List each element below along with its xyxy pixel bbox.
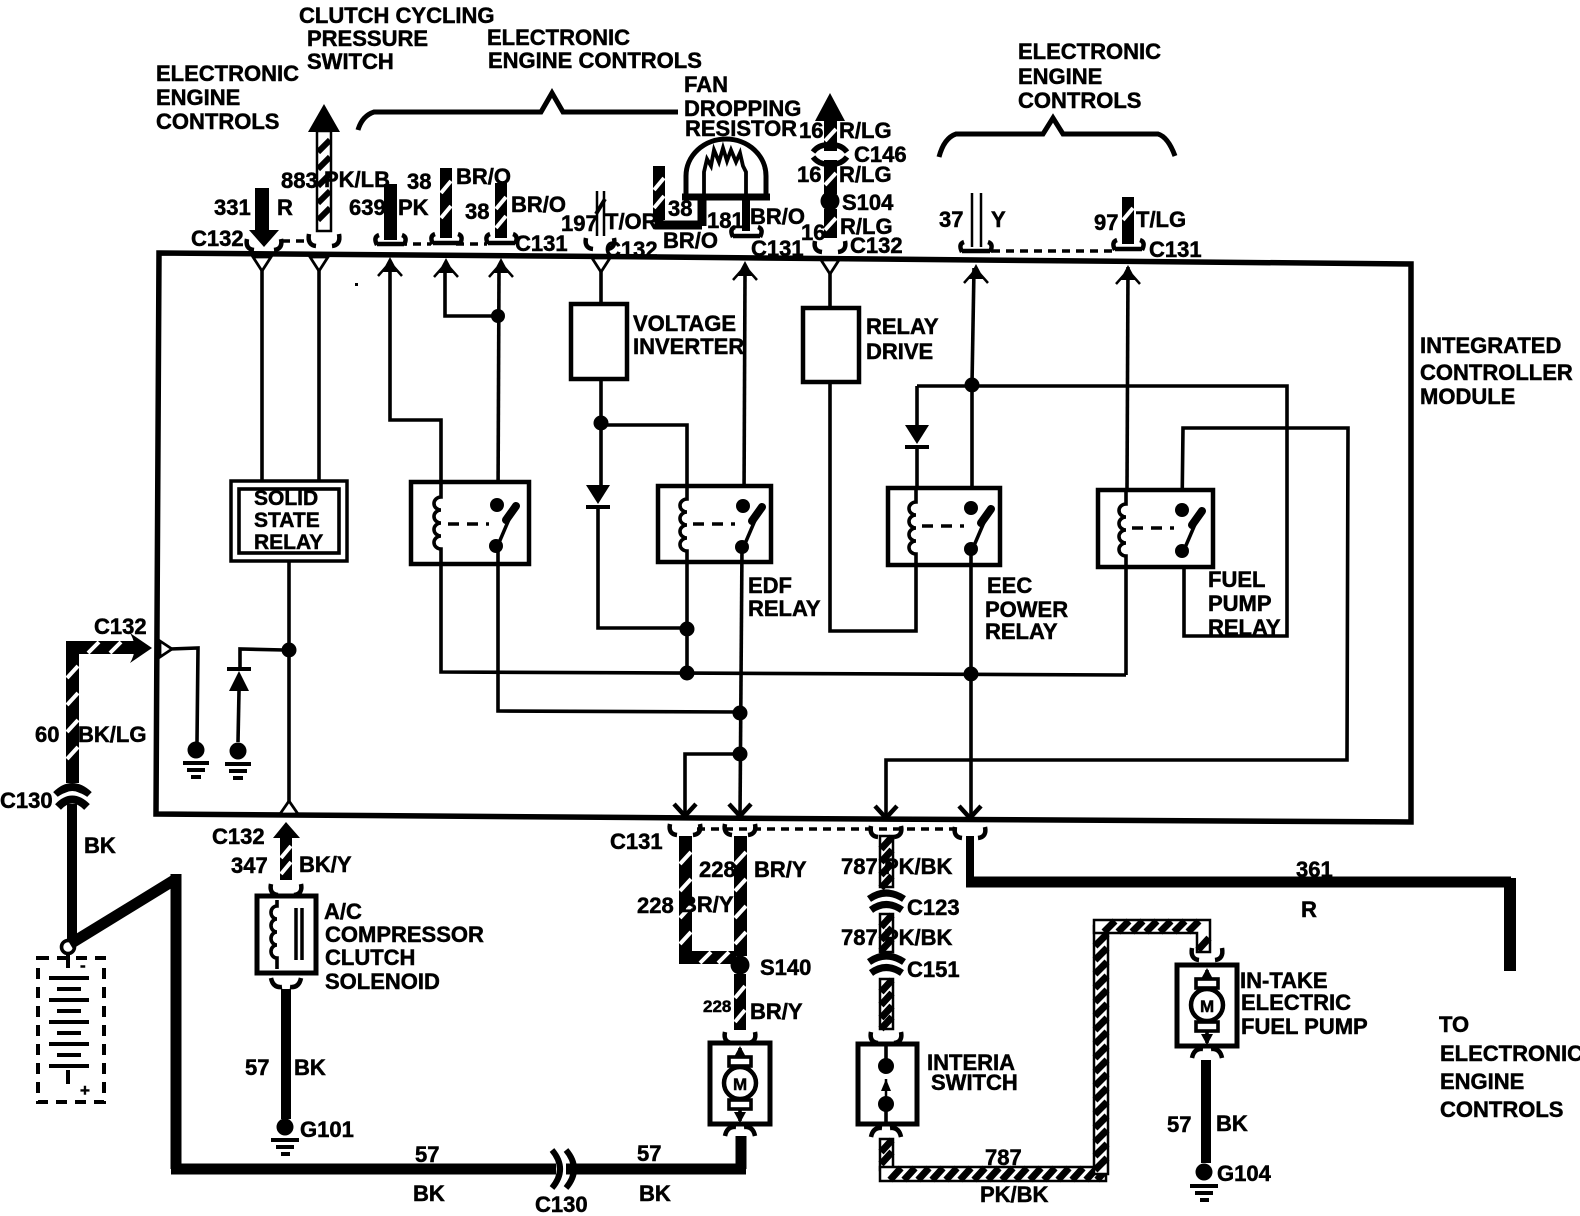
wire 16 to relay drive	[828, 273, 832, 309]
diode D2 (inverter branch)	[586, 429, 610, 507]
svg-text:C131: C131	[515, 231, 568, 256]
fan dropping resistor	[682, 139, 770, 197]
wire node to diode D1	[240, 649, 284, 668]
svg-text:BR/Y: BR/Y	[681, 892, 734, 917]
svg-text:16: 16	[799, 118, 823, 143]
wire node to EDF coil	[601, 425, 687, 487]
svg-text:G101: G101	[300, 1117, 354, 1142]
wire 197 to voltage inverter	[599, 270, 603, 305]
svg-text:RELAY: RELAY	[985, 619, 1058, 644]
wire 38 BR/O (second) into C131	[465, 183, 568, 256]
svg-text:C151: C151	[907, 957, 960, 982]
wire 639 PK into C131	[349, 184, 429, 245]
svg-text:T/OR: T/OR	[605, 209, 658, 234]
wire 16 R/LG with arrow up	[799, 93, 892, 151]
label electronic engine controls (left)	[156, 61, 299, 134]
connector (fuel pump top)	[1192, 948, 1223, 960]
wire 97 to fuel pump coil	[1127, 267, 1128, 492]
entry arrow C131 (37)	[964, 264, 988, 283]
svg-text:C132: C132	[212, 824, 265, 849]
node (38 wires join)	[491, 309, 505, 323]
svg-text:S140: S140	[760, 955, 811, 980]
wire 228 BR/Y (left leg) to S140	[637, 836, 736, 964]
wire 787 PK/BK inertia to fuel pump	[871, 920, 1210, 1207]
svg-text:M: M	[1200, 997, 1214, 1016]
svg-text:BR/Y: BR/Y	[754, 857, 807, 882]
svg-text:ELECTRONIC: ELECTRONIC	[1018, 39, 1161, 64]
svg-text:787: 787	[985, 1145, 1022, 1170]
brace (right electronic engine controls)	[939, 118, 1175, 157]
svg-text:CONTROLS: CONTROLS	[156, 109, 279, 134]
wire net to fuel pump switch bottom	[917, 386, 1287, 636]
svg-text:BR/O: BR/O	[511, 192, 566, 217]
splice S140	[731, 955, 812, 980]
svg-text:361: 361	[1296, 857, 1333, 882]
svg-text:883: 883	[281, 168, 318, 193]
wire 97 T/LG into C131	[1094, 197, 1202, 262]
dashed connector line C132 top	[282, 239, 311, 243]
label clutch cycling pressure switch	[299, 3, 495, 74]
svg-text:C123: C123	[907, 895, 960, 920]
svg-text:16: 16	[801, 220, 825, 245]
svg-text:BK: BK	[639, 1181, 671, 1206]
exit arrow C131 (361)	[959, 806, 981, 818]
connector C123	[868, 893, 960, 920]
svg-text:R/LG: R/LG	[839, 162, 892, 187]
diode D1	[227, 669, 251, 742]
speck artifact	[355, 283, 358, 286]
svg-text:C132: C132	[850, 233, 903, 258]
svg-text:639: 639	[349, 195, 386, 220]
node (EDF coil on bus)	[680, 666, 695, 681]
svg-text:FUEL: FUEL	[1208, 567, 1265, 592]
node (EDF coil bottom / diode)	[680, 622, 695, 637]
svg-text:BK/LG: BK/LG	[78, 722, 146, 747]
svg-text:RELAY: RELAY	[866, 314, 939, 339]
label fan dropping resistor	[684, 72, 801, 141]
exit arrow C131 (787)	[875, 806, 897, 818]
wire 57 BK to G104	[1167, 1049, 1248, 1163]
label to electronic engine controls	[1439, 1012, 1580, 1122]
wire BK battery to 57 bus	[70, 874, 176, 1169]
wire 37 to EEC switch node	[972, 268, 974, 384]
node (EEC switch top net)	[965, 378, 980, 393]
svg-text:EEC: EEC	[987, 573, 1032, 598]
svg-text:60: 60	[35, 722, 59, 747]
wire 639 to relay1 coil	[390, 270, 441, 484]
wire voltage inverter output	[599, 379, 603, 420]
svg-text:RELAY: RELAY	[254, 531, 323, 554]
svg-text:STATE: STATE	[254, 509, 320, 532]
svg-text:ELECTRIC: ELECTRIC	[1241, 990, 1351, 1015]
svg-text:ENGINE: ENGINE	[156, 85, 240, 110]
svg-text:T/LG: T/LG	[1136, 207, 1186, 232]
in-take electric fuel pump M2	[1177, 965, 1368, 1046]
svg-text:BK/Y: BK/Y	[299, 852, 352, 877]
battery terminal	[62, 941, 75, 954]
svg-text:C132: C132	[605, 237, 658, 262]
svg-text:BK: BK	[413, 1181, 445, 1206]
svg-text:RESISTOR: RESISTOR	[685, 116, 797, 141]
fan motor M1	[710, 1043, 770, 1136]
diode D3 (EEC coil)	[905, 386, 929, 489]
label electronic engine controls (right)	[1018, 39, 1161, 113]
node (inverter output)	[594, 416, 609, 431]
svg-text:228: 228	[699, 857, 736, 882]
integrated controller module box	[156, 253, 1411, 822]
connector C130 (inline)	[535, 1150, 588, 1216]
wire 38a to node	[445, 271, 497, 316]
exit chevron (left edge C132)	[160, 641, 172, 657]
svg-text:787: 787	[841, 925, 878, 950]
wire fuel pump coil bottom	[1124, 567, 1128, 675]
svg-text:INVERTER: INVERTER	[633, 334, 744, 359]
ground G101	[271, 1117, 354, 1154]
battery B1	[38, 954, 104, 1102]
svg-text:CONTROLLER: CONTROLLER	[1420, 360, 1573, 385]
wire 38 BR/O (first) into C131	[407, 164, 511, 244]
wire EDF switch bottom to C131 exit	[740, 547, 742, 817]
wire 883 to solid state relay	[317, 270, 321, 482]
entry arrow C131 (181)	[733, 261, 757, 280]
node (228 tie)	[733, 747, 748, 762]
wire fan motor to 57 BK bus	[736, 1136, 747, 1169]
wire 197 T/OR into C132	[561, 191, 658, 262]
connector C151	[868, 956, 960, 982]
node (EDF switch / relay1)	[733, 706, 748, 721]
wire 181 BR/O into C131	[707, 199, 805, 261]
svg-text:BR/O: BR/O	[750, 204, 805, 229]
svg-text:INTEGRATED: INTEGRATED	[1420, 333, 1561, 358]
svg-text:RELAY: RELAY	[1208, 615, 1281, 640]
svg-text:CONTROLS: CONTROLS	[1018, 88, 1141, 113]
svg-text:M: M	[733, 1075, 747, 1094]
solid state relay U2	[231, 481, 347, 561]
label integrated controller module	[1420, 333, 1573, 409]
svg-text:PK: PK	[398, 195, 429, 220]
wire 331 to solid state relay	[260, 270, 264, 482]
svg-text:C131: C131	[751, 236, 804, 261]
svg-text:PK/LB: PK/LB	[324, 167, 390, 192]
ground G104	[1190, 1161, 1272, 1200]
svg-text:228: 228	[703, 997, 731, 1016]
svg-text:EDF: EDF	[748, 573, 792, 598]
wire 57 BK bus (C130 to fan motor)	[566, 1141, 746, 1206]
svg-text:S104: S104	[842, 190, 894, 215]
svg-text:CONTROLS: CONTROLS	[1440, 1097, 1563, 1122]
svg-text:PK/BK: PK/BK	[884, 925, 953, 950]
svg-text:+: +	[80, 1081, 90, 1100]
wire 16 R/LG (S104 to C132)	[801, 209, 903, 258]
node (EEC switch on bus)	[964, 667, 979, 682]
svg-text:228: 228	[637, 893, 674, 918]
svg-text:FUEL PUMP: FUEL PUMP	[1241, 1014, 1368, 1039]
EDF relay K2	[658, 486, 821, 621]
ground (diode D1)	[225, 743, 251, 779]
svg-text:R: R	[277, 195, 293, 220]
connector C146	[813, 142, 907, 167]
EEC power relay K3	[888, 488, 1068, 644]
svg-text:SWITCH: SWITCH	[307, 49, 394, 74]
node (SSR output)	[282, 643, 297, 658]
svg-text:SWITCH: SWITCH	[931, 1070, 1018, 1095]
exit arrow C131 (228 left)	[674, 804, 696, 816]
wire 228 BR/Y to fan motor	[703, 974, 803, 1043]
BOTTOM	[0, 614, 1511, 1216]
svg-text:ENGINE CONTROLS: ENGINE CONTROLS	[488, 48, 702, 73]
wire 228 tie to second C131 exit	[685, 754, 740, 817]
wire SSR output	[287, 561, 291, 645]
svg-text:57: 57	[415, 1142, 439, 1167]
svg-text:38: 38	[668, 196, 692, 221]
wire 787 PK/BK to C123	[841, 836, 953, 888]
entry arrow C131 (38 second)	[489, 258, 513, 277]
svg-text:SOLID: SOLID	[254, 487, 318, 510]
wire EEC switch to 361 exit	[969, 549, 973, 817]
wire relay1 switch to EDF switch line	[498, 546, 740, 712]
entry arrow C131 (38 first)	[434, 258, 458, 277]
svg-text:SOLENOID: SOLENOID	[325, 969, 440, 994]
svg-text:57: 57	[1167, 1112, 1191, 1137]
ground (left)	[183, 742, 209, 778]
svg-text:RELAY: RELAY	[748, 596, 821, 621]
wire SSR node to C132 exit	[287, 653, 291, 804]
connector C131 bottom cups	[610, 824, 985, 854]
svg-text:ELECTRONIC: ELECTRONIC	[1440, 1041, 1580, 1066]
wire 57 BK bus (battery to C130)	[171, 1142, 556, 1206]
svg-text:BR/Y: BR/Y	[750, 999, 803, 1024]
wire 16 R/LG (C146 to S104)	[797, 160, 892, 194]
entry arrow C131 (639)	[378, 257, 402, 276]
fuel pump relay K4	[1098, 490, 1281, 640]
svg-text:197: 197	[561, 211, 598, 236]
svg-text:DRIVE: DRIVE	[866, 339, 933, 364]
wire 57 BK to G101	[245, 978, 326, 1119]
svg-text:G104: G104	[1217, 1161, 1272, 1186]
svg-text:PK/BK: PK/BK	[980, 1182, 1049, 1207]
dashed connector line (37 to 97)	[992, 249, 1112, 253]
svg-text:C130: C130	[535, 1192, 588, 1216]
wire 38b to relay1 switch	[498, 271, 499, 501]
svg-text:C132: C132	[191, 226, 244, 251]
svg-text:57: 57	[637, 1141, 661, 1166]
entry arrow C131 (97)	[1116, 265, 1140, 284]
svg-text:ELECTRONIC: ELECTRONIC	[487, 25, 630, 50]
relay drive box	[803, 308, 939, 382]
wire 347 BK/Y to A/C solenoid	[212, 822, 352, 895]
svg-text:COMPRESSOR: COMPRESSOR	[325, 922, 484, 947]
svg-text:331: 331	[214, 195, 251, 220]
svg-text:C131: C131	[610, 829, 663, 854]
relay K1	[411, 482, 529, 564]
svg-text:BK: BK	[1216, 1111, 1248, 1136]
wire relay drive to EEC coil bottom	[830, 382, 916, 631]
svg-text:C132: C132	[94, 614, 147, 639]
TOPWIRES	[191, 93, 1202, 262]
wire coil bottom bus	[441, 564, 1126, 675]
label electronic engine controls (middle)	[487, 25, 702, 73]
voltage inverter U1	[571, 304, 744, 379]
svg-text:MODULE: MODULE	[1420, 384, 1515, 409]
dashed connector line C131 bottom	[697, 827, 957, 831]
INTERIOR	[160, 257, 1348, 817]
svg-text:R/LG: R/LG	[839, 118, 892, 143]
wire BK battery positive	[72, 804, 116, 940]
exit chevron C132 (347)	[280, 801, 298, 814]
wire 38 BR/O fan stub	[653, 166, 718, 253]
svg-text:181: 181	[707, 208, 744, 233]
exit arrow C131 (228 right)	[729, 804, 751, 816]
svg-text:347: 347	[231, 853, 268, 878]
svg-text:TO: TO	[1439, 1012, 1469, 1037]
wire 331 R into C132	[191, 188, 293, 251]
brace (middle electronic engine controls)	[358, 93, 678, 130]
wire 228 BR/Y (right leg) to S140	[699, 836, 807, 956]
entry chevron C132 (331 R)	[253, 257, 271, 271]
svg-text:97: 97	[1094, 210, 1118, 235]
svg-text:FAN: FAN	[684, 72, 728, 97]
svg-text:16: 16	[797, 162, 821, 187]
svg-text:BK: BK	[294, 1055, 326, 1080]
wire EDF coil bottom	[685, 562, 689, 673]
svg-text:BK: BK	[84, 833, 116, 858]
splice S104	[821, 190, 895, 215]
svg-text:-: -	[80, 956, 86, 975]
wire 60 BK/LG to C130	[35, 633, 152, 783]
svg-text:37: 37	[939, 207, 963, 232]
svg-text:ELECTRONIC: ELECTRONIC	[156, 61, 299, 86]
wire fuel pump switch top loop	[886, 428, 1348, 817]
inertia switch S1	[858, 1044, 1018, 1124]
wire 37 Y into C131	[939, 193, 1006, 252]
svg-text:PRESSURE: PRESSURE	[307, 26, 428, 51]
wire 787 PK/BK to C151	[880, 914, 893, 952]
dashed connector line C131 top	[399, 242, 487, 246]
connector C130	[0, 787, 90, 813]
wire 883 PK/LB to clutch cycling pressure switch	[281, 104, 390, 246]
wire node to EEC switch	[970, 385, 974, 507]
svg-text:38: 38	[465, 199, 489, 224]
wire 361 R	[966, 836, 1511, 971]
svg-text:ENGINE: ENGINE	[1440, 1069, 1524, 1094]
svg-text:C130: C130	[0, 788, 53, 813]
entry chevron C132 (197)	[592, 258, 610, 272]
svg-text:ENGINE: ENGINE	[1018, 64, 1102, 89]
svg-text:C131: C131	[1149, 237, 1202, 262]
svg-text:57: 57	[245, 1055, 269, 1080]
svg-text:PK/BK: PK/BK	[884, 854, 953, 879]
A/C compressor clutch solenoid	[257, 896, 484, 994]
svg-text:R: R	[1301, 897, 1317, 922]
wire diode to EDF coil bottom node	[598, 507, 682, 628]
svg-text:CLUTCH: CLUTCH	[325, 945, 415, 970]
svg-text:38: 38	[407, 169, 431, 194]
svg-text:PUMP: PUMP	[1208, 591, 1272, 616]
svg-text:787: 787	[841, 854, 878, 879]
wire 787 PK/BK to inertia switch	[871, 979, 902, 1043]
entry chevron C132 (16)	[821, 260, 839, 274]
svg-text:Y: Y	[991, 207, 1006, 232]
svg-text:A/C: A/C	[324, 899, 362, 924]
svg-text:CLUTCH CYCLING: CLUTCH CYCLING	[299, 3, 495, 28]
wire 181 to EDF switch	[744, 274, 745, 501]
wire left edge to ground	[170, 648, 198, 742]
entry chevron C132 (883)	[310, 257, 328, 271]
svg-text:VOLTAGE: VOLTAGE	[633, 311, 736, 336]
